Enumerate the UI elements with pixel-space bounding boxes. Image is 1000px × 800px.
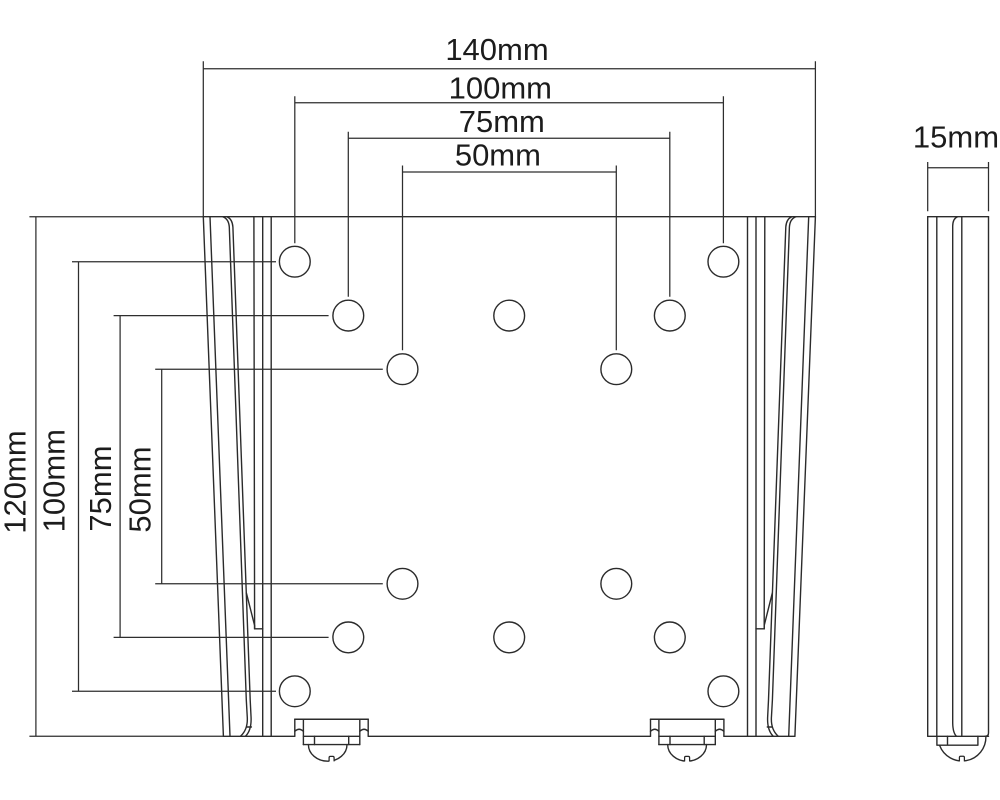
right screw slot xyxy=(685,756,690,761)
white gap for right screw slot xyxy=(685,757,690,764)
dim 120mm vline xyxy=(35,217,37,737)
left rail lip edge line xyxy=(253,217,256,629)
hole row5 left 75mm xyxy=(333,622,364,653)
right rail lip inner line xyxy=(768,217,792,736)
left rail panel vertical xyxy=(270,217,272,737)
right rail fold line 2 xyxy=(789,217,809,737)
hole row2 right 75mm xyxy=(654,300,685,331)
side view inner line 2 xyxy=(961,217,963,737)
hole row6 right 100mm xyxy=(708,676,739,707)
side view screw head arc xyxy=(940,737,986,761)
hole row1 right 100mm xyxy=(708,246,739,277)
hole row1 left 100mm xyxy=(279,246,310,277)
right rail lip end diagonal xyxy=(756,593,772,629)
dim 100mm line xyxy=(295,102,724,104)
left tab inner verticals xyxy=(303,719,359,744)
left rail inner vertical xyxy=(262,217,264,737)
dim 100mm ext lines left xyxy=(72,262,276,692)
left rail lip end diagonal xyxy=(246,593,262,629)
svg-text:75mm: 75mm xyxy=(459,104,545,139)
plate bottom edge xyxy=(223,735,795,737)
svg-text:50mm: 50mm xyxy=(455,138,541,173)
dim 75mm vline left xyxy=(119,316,121,638)
dim 100mm ticks xyxy=(295,96,724,243)
dim 50mm ext lines left xyxy=(155,369,383,584)
hole row4 right 50mm xyxy=(601,568,632,599)
right rail lip edge line xyxy=(763,217,766,629)
dim 75mm ext lines left xyxy=(114,316,329,638)
left rail lip bottom tick xyxy=(247,726,252,728)
dim 120mm ext lines xyxy=(29,217,223,737)
hole row3 right 50mm xyxy=(601,354,632,385)
side view curved fold line xyxy=(953,217,958,737)
dim 100mm vline left xyxy=(78,262,80,692)
left rail fold line 2 xyxy=(210,217,230,737)
right screw head arc xyxy=(668,745,707,762)
dim 15mm line xyxy=(928,167,989,169)
hole row3 left 50mm xyxy=(387,354,418,385)
left rail lip outer line xyxy=(223,217,248,736)
dim 15mm ticks xyxy=(928,162,989,211)
side view right edge xyxy=(985,217,989,737)
dim 50mm line xyxy=(403,171,617,173)
svg-text:75mm: 75mm xyxy=(83,445,118,531)
dim 75mm ticks xyxy=(348,132,670,297)
dim 140mm line xyxy=(203,68,815,70)
plate right outer edge xyxy=(795,217,816,737)
right tab top edge xyxy=(651,718,724,720)
dim 140mm ticks xyxy=(203,61,815,216)
right tab collar dividers xyxy=(670,736,704,744)
side view top edge xyxy=(928,216,989,218)
left tab collar bottom xyxy=(303,744,359,746)
right rail lip outer line xyxy=(771,217,796,736)
dim 50mm ticks xyxy=(403,166,617,351)
plate left outer edge xyxy=(203,217,223,737)
left tab ear arcs xyxy=(295,729,368,731)
right rail lip bottom tick xyxy=(767,726,772,728)
white gap for side screw slot xyxy=(960,757,965,764)
svg-text:50mm: 50mm xyxy=(123,446,158,532)
hole row5 right 75mm xyxy=(654,622,685,653)
right tab collar bottom xyxy=(659,744,715,746)
hole row4 left 50mm xyxy=(387,568,418,599)
hole row2 center xyxy=(494,300,525,331)
side screw slot xyxy=(959,756,964,761)
side view inner line xyxy=(936,217,938,737)
right tab outer verticals xyxy=(651,719,724,736)
dim 50mm vline left xyxy=(161,369,163,584)
side view bottom edge xyxy=(928,735,989,737)
right rail panel vertical xyxy=(747,217,749,737)
left tab outer verticals xyxy=(295,719,368,736)
left screw head arc xyxy=(308,745,347,762)
dim 75mm line xyxy=(348,137,670,139)
svg-text:100mm: 100mm xyxy=(449,70,552,105)
plate top edge xyxy=(203,216,815,218)
hole row6 left 100mm xyxy=(279,676,310,707)
left tab collar dividers xyxy=(315,736,349,744)
svg-text:120mm: 120mm xyxy=(0,430,33,533)
white gap for left screw slot xyxy=(329,757,334,764)
svg-text:15mm: 15mm xyxy=(913,120,999,155)
side view left edge xyxy=(927,217,929,737)
left screw slot xyxy=(329,756,334,761)
svg-text:140mm: 140mm xyxy=(445,32,548,67)
right tab ear arcs xyxy=(651,729,724,731)
hole row2 left 75mm xyxy=(333,300,364,331)
right tab inner verticals xyxy=(659,719,715,744)
svg-text:100mm: 100mm xyxy=(36,429,71,532)
side view collar xyxy=(937,736,978,745)
left tab top edge xyxy=(295,718,368,720)
hole row5 center xyxy=(494,622,525,653)
left rail lip inner line xyxy=(227,217,251,736)
right rail inner vertical xyxy=(755,217,757,737)
